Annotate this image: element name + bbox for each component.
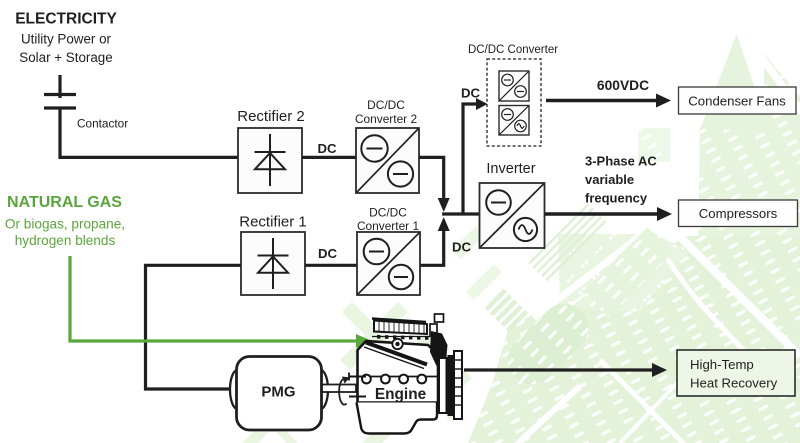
- block Rectifier 2: [238, 128, 302, 193]
- wire DC/DC 1 output to junction (up arrow): [420, 230, 444, 265]
- spire triangle: [699, 34, 770, 132]
- engine oil pan: [357, 403, 438, 434]
- svg-text:Converter 1: Converter 1: [357, 219, 420, 233]
- svg-text:Solar + Storage: Solar + Storage: [19, 50, 112, 65]
- shaft PMG to engine: [322, 385, 356, 393]
- engine air intake: [430, 324, 437, 335]
- engine assembly: [349, 314, 462, 434]
- wire Rectifier 2 to DC/DC Converter 2: [302, 156, 356, 159]
- crosswalk ladder: [484, 289, 528, 333]
- block Rectifier 1: [241, 232, 305, 295]
- wire junction up to dashed DC/DC converter (right arrow): [463, 104, 477, 214]
- svg-text:Inverter: Inverter: [486, 161, 535, 177]
- block Compressors: [679, 200, 798, 227]
- block dashed DC/DC Converter: [487, 59, 541, 146]
- wire 600VDC arrow to Condenser Fans: [546, 99, 657, 102]
- rotation arrow on shaft: [339, 379, 346, 405]
- svg-text:Compressors: Compressors: [699, 206, 778, 221]
- engine left mount stubs: [349, 376, 366, 378]
- svg-text:DC: DC: [452, 240, 472, 255]
- white street through middle: [534, 216, 666, 318]
- svg-text:Contactor: Contactor: [77, 117, 128, 131]
- square window cluster: [558, 234, 688, 312]
- bottom-right mass: [468, 236, 800, 443]
- svg-text:Engine: Engine: [375, 386, 427, 403]
- contactor symbol: [44, 75, 76, 108]
- svg-text:DC/DC Converter: DC/DC Converter: [468, 44, 558, 56]
- PMG generator body: [230, 357, 328, 431]
- diode symbol in Rectifier 1: [258, 238, 289, 289]
- svg-text:Heat Recovery: Heat Recovery: [690, 376, 778, 391]
- diode symbol in Rectifier 2: [255, 134, 286, 186]
- svg-text:3-Phase AC: 3-Phase AC: [585, 154, 657, 169]
- block Inverter: [480, 183, 545, 248]
- wire engine to High-Temp Heat Recovery: [464, 368, 653, 371]
- rail stripes: [528, 203, 606, 281]
- svg-text:Condenser Fans: Condenser Fans: [688, 94, 786, 109]
- svg-text:hydrogen blends: hydrogen blends: [15, 233, 116, 248]
- svg-text:DC: DC: [461, 86, 481, 101]
- engine slant band: [366, 343, 427, 365]
- wire PMG trunk to Rectifier 1: [146, 265, 242, 389]
- upper arm slab: [583, 227, 674, 318]
- wire DC/DC 2 output to junction (down arrow): [419, 157, 444, 199]
- bottom-center chevron: [242, 403, 290, 443]
- engine flywheel bars: [439, 358, 447, 413]
- svg-text:Or biogas, propane,: Or biogas, propane,: [5, 217, 125, 232]
- svg-text:DC: DC: [318, 246, 338, 261]
- wire natural gas green feed to engine: [70, 256, 357, 341]
- svg-text:DC/DC: DC/DC: [367, 98, 405, 112]
- svg-text:NATURAL GAS: NATURAL GAS: [7, 194, 122, 211]
- svg-text:600VDC: 600VDC: [597, 78, 649, 93]
- svg-text:PMG: PMG: [261, 384, 295, 401]
- wire Rectifier 1 to DC/DC Converter 1: [305, 264, 357, 267]
- capsule tower: [498, 294, 598, 394]
- svg-text:variable: variable: [585, 172, 634, 187]
- engine bolt row: [372, 336, 436, 338]
- small left dashes building: [638, 128, 670, 162]
- engine head line and cylinder bumps: [358, 376, 437, 378]
- svg-text:ELECTRICITY: ELECTRICITY: [15, 11, 117, 28]
- chevrons near inverter: [452, 226, 485, 259]
- block DC/DC Converter 1: [357, 232, 420, 295]
- svg-text:Converter 2: Converter 2: [355, 112, 418, 126]
- svg-text:High-Temp: High-Temp: [690, 357, 754, 372]
- svg-text:Rectifier 1: Rectifier 1: [239, 214, 307, 231]
- svg-text:DC: DC: [317, 141, 337, 156]
- engine carburetor: [392, 339, 402, 349]
- svg-text:Utility Power or: Utility Power or: [21, 32, 112, 47]
- engine right side dark parts: [430, 331, 448, 366]
- block DC/DC Converter 2: [356, 128, 419, 193]
- wire inverter to Compressors: [545, 212, 659, 215]
- engine area lattice: [340, 302, 472, 443]
- small converter box B: [499, 106, 529, 136]
- wire junction to inverter: [442, 212, 479, 215]
- engine block body: [358, 341, 439, 403]
- small converter box A: [499, 71, 529, 101]
- svg-text:Rectifier 2: Rectifier 2: [237, 108, 305, 125]
- block High-Temp Heat Recovery: [677, 350, 795, 396]
- right facade top: [698, 54, 800, 240]
- wire contactor to Rectifier 2: [60, 108, 238, 157]
- svg-text:frequency: frequency: [585, 191, 648, 206]
- block Condenser Fans: [679, 87, 797, 114]
- engine valve cover: [374, 321, 427, 335]
- svg-text:DC/DC: DC/DC: [369, 206, 407, 220]
